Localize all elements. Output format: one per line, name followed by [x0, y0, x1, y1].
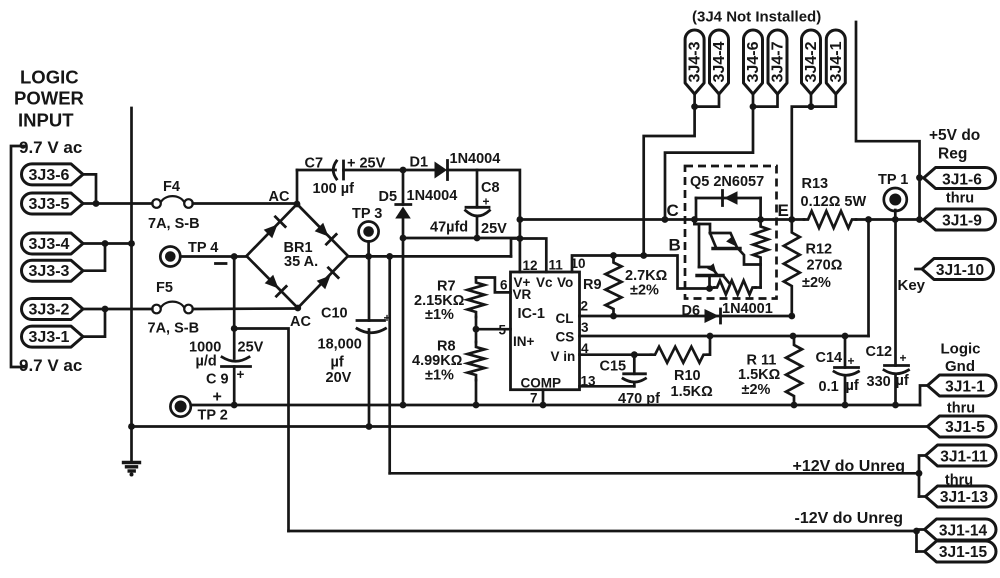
- junction rail B at bus: [128, 423, 135, 430]
- svg-text:D6: D6: [682, 303, 701, 319]
- junction 3J4-2/1: [808, 103, 815, 110]
- connector 3J4-6: [744, 30, 763, 94]
- junction R11 top: [790, 333, 797, 340]
- wire CS row to +5V row: [867, 220, 870, 337]
- svg-text:9.7 V ac: 9.7 V ac: [19, 356, 82, 375]
- diode D6: [705, 309, 720, 323]
- connector 3J3-3: [22, 260, 84, 281]
- wire to 3J1-15: [917, 550, 925, 553]
- svg-text:3J4-4: 3J4-4: [711, 41, 728, 82]
- resistor R12: [784, 220, 800, 317]
- wire to 3J1-6: [920, 176, 924, 179]
- bracket for 9.7 V ac inputs: [11, 146, 25, 367]
- wire 3J4-2/1 to node E: [792, 107, 811, 220]
- junction node C: [662, 216, 669, 223]
- svg-text:25V: 25V: [481, 221, 507, 237]
- svg-text:3J4-2: 3J4-2: [803, 41, 820, 82]
- connector 3J1-10: [922, 259, 994, 280]
- junction R10 top: [707, 333, 714, 340]
- capacitor C10: [368, 256, 371, 320]
- svg-text:+: +: [213, 389, 222, 406]
- diode in BR1 bottom-left arm: [265, 275, 279, 289]
- svg-text:µf: µf: [846, 378, 859, 394]
- junction R12 top: [788, 216, 795, 223]
- diode internal Q5: [695, 198, 698, 220]
- svg-text:µf: µf: [331, 355, 344, 371]
- svg-text:3J3-4: 3J3-4: [29, 236, 70, 253]
- svg-text:Vc: Vc: [536, 275, 553, 290]
- wire 3J4-7 stub: [753, 94, 778, 107]
- wire bridge AC up to C7: [296, 170, 299, 204]
- connector 3J1-13: [926, 486, 997, 507]
- connector 3J4-1: [826, 30, 845, 94]
- svg-text:3J1-14: 3J1-14: [939, 523, 988, 540]
- wire 3J4-4 stub: [695, 94, 719, 107]
- svg-text:R10: R10: [674, 368, 701, 384]
- label minus sign: [216, 262, 227, 265]
- svg-text:AC: AC: [269, 189, 290, 205]
- svg-text:1.5KΩ: 1.5KΩ: [738, 367, 781, 383]
- svg-text:±1%: ±1%: [425, 368, 454, 384]
- svg-text:7A, S-B: 7A, S-B: [148, 321, 200, 337]
- svg-text:7: 7: [530, 391, 538, 406]
- wire center-tap bus: [130, 108, 133, 462]
- svg-text:±2%: ±2%: [742, 382, 771, 398]
- junction Q5 collector-left: [691, 216, 698, 223]
- svg-text:25V: 25V: [238, 340, 264, 356]
- diode in BR1 top-right arm: [315, 223, 329, 237]
- svg-text:3J3-5: 3J3-5: [29, 196, 70, 213]
- svg-text:1N4001: 1N4001: [722, 301, 773, 317]
- junction IN+ tap: [473, 326, 480, 333]
- transistor Q5b: [697, 274, 723, 277]
- wire bridge plus row: [348, 255, 511, 258]
- resistor R13: [804, 211, 856, 228]
- connector 3J4-7: [768, 30, 787, 94]
- svg-text:12: 12: [523, 258, 538, 273]
- wire B node to Q5b: [708, 276, 711, 289]
- junction C14 top: [842, 333, 849, 340]
- fuse F4: [152, 199, 161, 208]
- svg-text:20V: 20V: [326, 370, 352, 386]
- junction R9 bottom: [610, 313, 617, 320]
- svg-text:AC: AC: [290, 314, 311, 330]
- wire 3J3-4 to junction: [83, 242, 105, 245]
- svg-text:D5: D5: [379, 189, 398, 205]
- wire C7 to D1: [344, 169, 436, 172]
- svg-text:0.12Ω 5W: 0.12Ω 5W: [801, 194, 867, 210]
- svg-text:C: C: [667, 201, 679, 220]
- junction R9 top: [610, 252, 617, 259]
- capacitor C14: [844, 336, 847, 368]
- wire R10 to CS row: [708, 336, 711, 355]
- svg-text:E: E: [778, 201, 789, 220]
- connector 3J1-9: [924, 209, 996, 230]
- svg-text:Reg: Reg: [938, 146, 967, 163]
- svg-text:Logic: Logic: [941, 341, 981, 358]
- svg-text:R9: R9: [583, 277, 602, 293]
- resistor internal Q5 (horizontal): [714, 281, 756, 295]
- capacitor C7: [333, 161, 336, 179]
- junction Q5 right vertical: [757, 216, 764, 223]
- test point TP1: [884, 188, 907, 211]
- fuse F5: [152, 305, 161, 314]
- svg-text:µ/d: µ/d: [196, 354, 217, 370]
- svg-text:3J3-2: 3J3-2: [29, 302, 70, 319]
- junction C9 on gnd rail: [231, 402, 238, 409]
- junction D5 top: [400, 167, 407, 174]
- ground symbol: [124, 461, 140, 464]
- junction 3J4-3/4: [691, 103, 698, 110]
- connector 3J4-3: [685, 30, 704, 94]
- connector 3J3-2: [22, 299, 84, 320]
- wire to 3J1-13: [919, 495, 926, 498]
- diode in BR1 top-left arm: [264, 225, 278, 239]
- wire +12V rail: [390, 472, 919, 475]
- svg-text:VR: VR: [513, 287, 532, 302]
- wire 3J4-3 stub: [693, 94, 696, 107]
- junction +12V rail: [916, 470, 923, 477]
- connector 3J4-4: [710, 30, 729, 94]
- svg-text:3J1-5: 3J1-5: [945, 419, 985, 436]
- wire 3J3-1 to junction: [83, 309, 105, 337]
- junction main row start: [517, 216, 524, 223]
- junction C14 on gnd rail: [842, 402, 849, 409]
- junction bridge bottom corner: [294, 305, 301, 312]
- svg-text:±2%: ±2%: [630, 283, 659, 299]
- junction TP1 on row: [892, 216, 899, 223]
- svg-text:1N4004: 1N4004: [407, 188, 458, 204]
- svg-text:35 A.: 35 A.: [284, 254, 318, 270]
- junction CS sense on +5V row: [865, 216, 872, 223]
- wire pin2 CL row: [580, 315, 792, 318]
- svg-text:Key: Key: [898, 277, 926, 294]
- svg-text:7A, S-B: 7A, S-B: [148, 216, 200, 232]
- svg-text:+: +: [237, 367, 245, 382]
- svg-text:POWER: POWER: [14, 88, 84, 109]
- svg-text:+: +: [900, 351, 907, 365]
- junction -12V rail: [913, 528, 920, 535]
- wire logic gnd rail A: [191, 404, 920, 407]
- svg-text:C15: C15: [600, 359, 627, 375]
- connector 3J1-5: [928, 416, 997, 437]
- svg-text:±1%: ±1%: [425, 307, 454, 323]
- junction R8 on gnd rail: [473, 402, 480, 409]
- svg-text:+: +: [483, 195, 490, 209]
- svg-text:3J1-6: 3J1-6: [942, 172, 982, 189]
- wire 3J1-10 stub: [916, 268, 923, 271]
- svg-text:470 pf: 470 pf: [618, 391, 660, 407]
- svg-text:3J1-11: 3J1-11: [940, 449, 988, 466]
- wire pin13 to C15 bottom: [580, 385, 635, 388]
- wire 3J4-1 stub: [811, 94, 836, 107]
- svg-text:3J4-6: 3J4-6: [745, 41, 762, 82]
- wire to 3J1-11: [919, 456, 926, 497]
- junction 3J4-6/7: [750, 103, 757, 110]
- wire D1 to V+ corner: [448, 170, 520, 272]
- junction +12V takeoff: [386, 253, 393, 260]
- wire plus row up to V+ node: [511, 239, 520, 257]
- connector 3J3-4: [22, 233, 84, 254]
- svg-text:C14: C14: [816, 350, 843, 366]
- svg-text:3J1-9: 3J1-9: [942, 213, 982, 230]
- wire main +5V row (right): [856, 218, 924, 221]
- svg-text:TP 3: TP 3: [352, 206, 382, 222]
- svg-text:+12V do Unreg: +12V do Unreg: [793, 458, 905, 475]
- capacitor C12: [894, 220, 897, 366]
- diode D5: [402, 170, 405, 205]
- connector 3J3-5: [22, 193, 84, 214]
- svg-text:R13: R13: [802, 176, 829, 192]
- junction minus takeoff: [231, 253, 238, 260]
- svg-text:0.1: 0.1: [819, 379, 839, 395]
- resistor internal Q5 (vertical): [753, 220, 768, 265]
- svg-text:2: 2: [581, 299, 589, 314]
- svg-text:F5: F5: [156, 280, 173, 296]
- junction D5 line on gnd rail: [400, 402, 407, 409]
- connector 3J4-2: [802, 30, 821, 94]
- connector 3J3-1: [22, 326, 84, 347]
- diode D1: [435, 162, 448, 179]
- svg-text:IN+: IN+: [513, 334, 535, 349]
- wire +12V drop: [388, 256, 391, 473]
- svg-text:IC-1: IC-1: [518, 306, 545, 322]
- svg-text:270Ω: 270Ω: [807, 258, 843, 274]
- svg-text:3J3-6: 3J3-6: [29, 167, 70, 184]
- connector 3J1-1: [928, 375, 997, 396]
- wire logic gnd rail B: [132, 425, 928, 428]
- junction C12 on gnd rail: [892, 402, 899, 409]
- svg-text:3: 3: [581, 320, 589, 335]
- bridge rectifier BR1 outline: [247, 204, 349, 308]
- junction 3J4 pair1 on Vo wire: [640, 252, 647, 259]
- wire 3J4-6/7 to node C: [665, 107, 753, 220]
- svg-text:TP 1: TP 1: [878, 172, 908, 188]
- resistor R7: [468, 278, 485, 318]
- wire TP3 stub: [367, 242, 370, 257]
- svg-text:F4: F4: [163, 179, 180, 195]
- svg-text:3J4-7: 3J4-7: [770, 41, 787, 82]
- wire minus line down: [233, 257, 236, 329]
- svg-text:TP 4: TP 4: [188, 240, 218, 256]
- wire TP1 stub: [894, 210, 897, 220]
- wire 3J3-3 to junction: [83, 244, 105, 271]
- junction 3J1 drop on row: [916, 216, 923, 223]
- junction R12 bottom: [788, 313, 795, 320]
- wire -12V rail: [289, 530, 917, 533]
- svg-text:330: 330: [867, 374, 891, 390]
- svg-text:CL: CL: [556, 311, 574, 326]
- diode in BR1 bottom-right arm: [317, 276, 331, 290]
- wire R8 to gnd rail: [475, 380, 478, 405]
- svg-text:thru: thru: [946, 191, 974, 207]
- svg-text:3J4-3: 3J4-3: [687, 41, 704, 82]
- wire pin3 CS row: [580, 335, 869, 338]
- svg-text:Vo: Vo: [557, 275, 573, 290]
- wire +5V sense drop: [856, 22, 920, 220]
- capacitor C8: [476, 170, 479, 207]
- junction center-tap on bus: [128, 240, 135, 247]
- svg-text:µf: µf: [896, 373, 909, 389]
- junction D5 bottom: [400, 235, 407, 242]
- wire minus to -12V drop: [234, 329, 288, 532]
- svg-text:CS: CS: [556, 330, 575, 345]
- wire pin11 from V+ node: [520, 239, 546, 273]
- wire 3J4-6 stub: [752, 94, 755, 107]
- test point TP3: [359, 222, 379, 242]
- wire pin6 VR to divider: [476, 278, 511, 293]
- connector 3J1-15: [925, 541, 997, 562]
- svg-text:3J3-1: 3J3-1: [29, 329, 70, 346]
- svg-text:3J1-10: 3J1-10: [936, 262, 984, 279]
- junction R11 on gnd rail: [791, 402, 798, 409]
- wire F4 to bridge AC: [193, 202, 297, 205]
- wire pin4 Vin row: [580, 353, 652, 356]
- wire divider middle: [475, 317, 478, 342]
- wire 3J4-2 stub: [810, 94, 813, 107]
- svg-text:9.7 V ac: 9.7 V ac: [19, 138, 82, 157]
- wire 3J4-3/4 to Vo wire: [644, 107, 695, 256]
- junction minus tee: [231, 325, 238, 332]
- junction C8 bottom: [474, 235, 481, 242]
- svg-text:LOGIC: LOGIC: [20, 67, 79, 88]
- svg-text:47µfd: 47µfd: [430, 220, 468, 236]
- svg-text:C 9: C 9: [206, 372, 229, 388]
- svg-text:B: B: [669, 236, 681, 255]
- wire internal right chain: [759, 265, 762, 288]
- svg-text:18,000: 18,000: [318, 337, 362, 353]
- connector 3J1-11: [926, 445, 997, 466]
- junction TP3/C10: [365, 253, 372, 260]
- svg-text:INPUT: INPUT: [18, 110, 74, 131]
- wire 3J3-5 to fuse F4: [83, 202, 152, 205]
- svg-text:100 µf: 100 µf: [313, 181, 355, 197]
- capacitor C9: [233, 329, 236, 359]
- svg-text:Q5 2N6057: Q5 2N6057: [690, 174, 764, 190]
- svg-text:(3J4 Not Installed): (3J4 Not Installed): [692, 9, 821, 26]
- svg-text:thru: thru: [947, 401, 975, 417]
- svg-text:+: +: [848, 354, 855, 368]
- wire D5 line down to gnd rail: [402, 238, 405, 405]
- wire to 3J1-14: [917, 530, 925, 552]
- wire internal to B node: [710, 288, 715, 289]
- wire rail A to 3J1-1: [920, 386, 928, 406]
- junction 3J3-4/3J3-3: [102, 240, 109, 247]
- wire D5/C8 ground row: [403, 237, 520, 240]
- junction C15 top: [631, 351, 638, 358]
- svg-text:D1: D1: [410, 155, 429, 171]
- transistor Q5b base feed: [695, 224, 700, 267]
- connector 3J3-6: [22, 164, 84, 185]
- svg-text:±2%: ±2%: [802, 275, 831, 291]
- wire main +5V row (left): [520, 218, 804, 221]
- wire 3J3-6 to junction: [83, 174, 96, 203]
- resistor R10: [651, 347, 708, 363]
- svg-text:C10: C10: [321, 306, 348, 322]
- junction bridge top corner: [294, 201, 301, 208]
- wire pin5 IN+: [476, 328, 511, 331]
- connector 3J1-14: [925, 519, 997, 540]
- svg-text:1N4004: 1N4004: [450, 151, 501, 167]
- svg-text:TP 2: TP 2: [198, 408, 228, 424]
- svg-text:3J3-3: 3J3-3: [29, 263, 70, 280]
- wire pin10 Vo: [572, 256, 710, 289]
- junction 3J3-5/3J3-6: [93, 200, 100, 207]
- capacitor C15: [633, 355, 636, 374]
- svg-text:3J1-15: 3J1-15: [939, 544, 988, 561]
- svg-text:Gnd: Gnd: [945, 358, 975, 375]
- wire center-tap pair to bus: [105, 242, 132, 245]
- junction pin7 on gnd rail: [540, 402, 547, 409]
- svg-text:-12V do Unreg: -12V do Unreg: [795, 510, 903, 527]
- test point TP4: [160, 247, 180, 267]
- transistor Q5a: [695, 220, 711, 234]
- svg-text:1.5KΩ: 1.5KΩ: [671, 384, 714, 400]
- svg-text:6: 6: [500, 278, 508, 293]
- wire Q5a emitter to resistor: [738, 249, 761, 265]
- svg-text:3J1-1: 3J1-1: [945, 379, 985, 396]
- connector 3J1-6: [924, 168, 996, 189]
- svg-text:C7: C7: [305, 156, 324, 172]
- svg-text:+5V do: +5V do: [929, 127, 980, 144]
- wire pair to fuse F5: [105, 308, 152, 311]
- junction B node: [706, 285, 713, 292]
- resistor R9: [606, 256, 622, 317]
- svg-text:R12: R12: [806, 242, 833, 258]
- junction V+ node: [517, 235, 524, 242]
- svg-text:11: 11: [549, 258, 564, 273]
- resistor R8: [468, 342, 485, 380]
- junction 3J1-6 tap: [916, 174, 923, 181]
- resistor R11: [786, 336, 802, 405]
- svg-text:COMP: COMP: [521, 376, 562, 391]
- svg-text:C12: C12: [866, 344, 893, 360]
- svg-text:3J1-13: 3J1-13: [940, 489, 989, 506]
- test point TP2: [170, 396, 190, 416]
- junction 3J3-2/3J3-1: [102, 306, 109, 313]
- regulator IC-1 box: [511, 272, 580, 390]
- svg-text:V in: V in: [551, 349, 576, 364]
- wire AC corner to C7: [297, 169, 336, 172]
- wire TP4 to bridge minus: [180, 255, 246, 258]
- dashed outline Q5 (3J4 region): [685, 166, 777, 299]
- wire F5 to bridge AC: [193, 307, 297, 310]
- svg-text:3J4-1: 3J4-1: [828, 41, 845, 82]
- junction C10 on rail2: [366, 423, 373, 430]
- wire 3J3-2 to junction: [83, 308, 105, 311]
- wire pin7 to gnd rail: [542, 390, 545, 405]
